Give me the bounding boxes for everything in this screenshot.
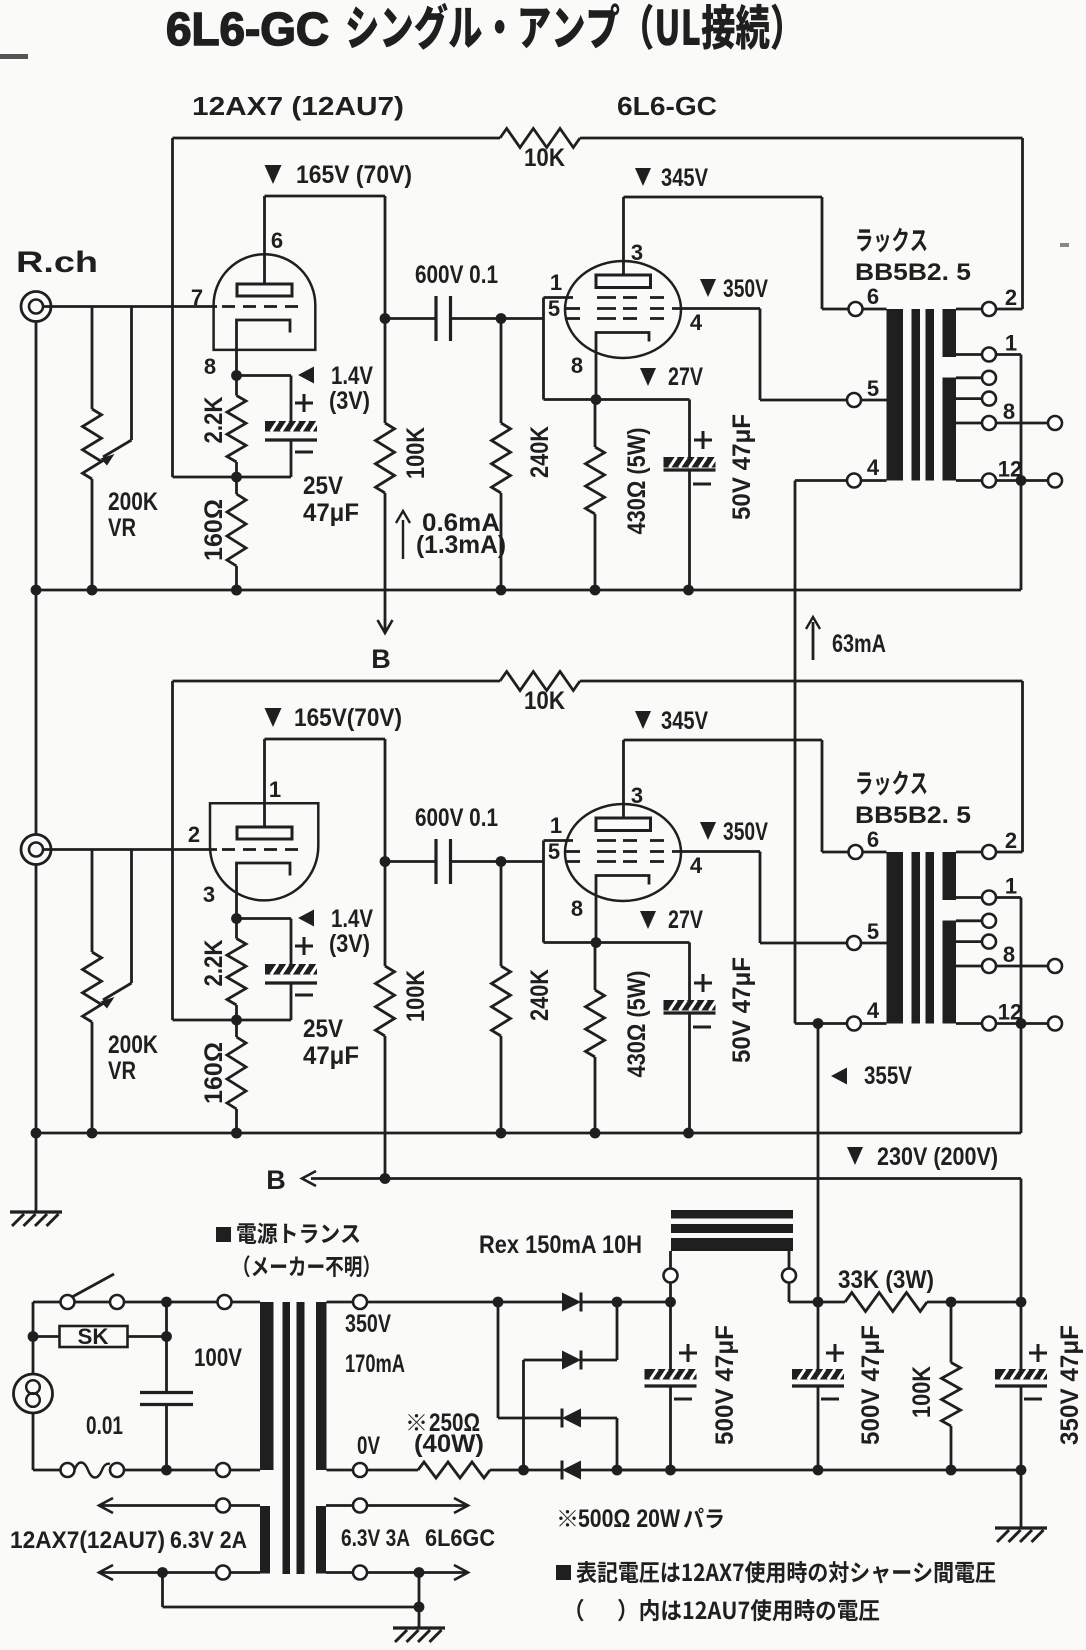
- capacitor 50V 47uF cathode: [688, 943, 691, 1001]
- transformer primary terminals: [232, 1301, 261, 1304]
- resistor 240K grid leak: [500, 862, 503, 967]
- resistor 100K plate load: [384, 319, 387, 424]
- svg-text:4: 4: [690, 310, 703, 335]
- svg-text:500V 47μF: 500V 47μF: [857, 1325, 885, 1445]
- wire input to grid: [43, 848, 217, 851]
- capacitor 0.01 line filter: [165, 1302, 168, 1391]
- svg-text:0.01: 0.01: [86, 1412, 123, 1440]
- ground symbol heater: [393, 1626, 445, 1629]
- label 230V (200V): [847, 1147, 863, 1165]
- wire 12AX7 plate to coupling node: [265, 195, 386, 198]
- svg-text:8: 8: [571, 896, 583, 921]
- tube 12AX7 grid: [222, 848, 235, 851]
- transformer heater 6.3V 2A: [230, 1504, 260, 1507]
- svg-text:3: 3: [631, 783, 643, 808]
- svg-text:0V: 0V: [357, 1432, 380, 1460]
- wire OPT sec 1-12 common: [996, 353, 1021, 356]
- svg-text:2: 2: [188, 822, 200, 847]
- capacitor 350V 47uF: [1020, 1302, 1023, 1369]
- pilot lamp: [32, 1302, 35, 1374]
- svg-text:6L6GC: 6L6GC: [425, 1525, 495, 1552]
- svg-text:350V: 350V: [723, 275, 768, 303]
- ground rail: [36, 589, 1021, 592]
- svg-text:8: 8: [1003, 399, 1015, 424]
- svg-text:(40W): (40W): [414, 1430, 484, 1458]
- tube 6L6 grids: [597, 839, 616, 842]
- svg-text:100K: 100K: [402, 427, 430, 479]
- svg-text:50V 47μF: 50V 47μF: [728, 414, 756, 520]
- wire NFB rail ch1: [173, 137, 501, 140]
- svg-text:B: B: [266, 1165, 286, 1195]
- footer note voltages: [556, 1565, 571, 1580]
- svg-text:47μF: 47μF: [303, 1042, 359, 1070]
- svg-text:1.4V: 1.4V: [331, 362, 373, 390]
- svg-text:200K: 200K: [108, 488, 158, 516]
- power transformer windings: [260, 1302, 274, 1470]
- resistor 100K bleeder: [950, 1302, 953, 1363]
- OPT secondary terminals: [956, 308, 982, 311]
- capacitor 500V 47uF no2: [817, 1302, 820, 1369]
- VR wiper: [130, 850, 133, 984]
- wire OPT sec 2 to NFB rail: [996, 308, 1023, 311]
- svg-text:355V: 355V: [864, 1062, 912, 1090]
- node 6L6 cathode: [591, 937, 602, 948]
- wire OPT sec 1-12 common: [996, 896, 1021, 899]
- output transformer windings: [887, 309, 904, 481]
- label B+ 63mA arrow: [812, 622, 815, 660]
- svg-text:345V: 345V: [661, 164, 708, 192]
- wire 100K to B+ arrow: [384, 493, 387, 632]
- tube 6L6-GC envelope: [565, 804, 681, 901]
- svg-text:6: 6: [271, 228, 283, 253]
- svg-text:10K: 10K: [524, 687, 565, 715]
- svg-text:5: 5: [867, 376, 879, 401]
- label 345V: [635, 711, 651, 729]
- resistor 10K NFB: [500, 672, 580, 691]
- svg-text:2.2K: 2.2K: [200, 940, 228, 987]
- svg-text:160Ω: 160Ω: [200, 1042, 228, 1104]
- svg-text:165V(70V): 165V(70V): [294, 704, 402, 732]
- label 0.6mA (1.3mA): [402, 520, 404, 559]
- label Lux BB5B2.5: [857, 228, 926, 253]
- resistor 240K grid leak: [500, 319, 503, 424]
- OPT primary terminals: [863, 308, 887, 311]
- svg-text:160Ω: 160Ω: [200, 499, 228, 561]
- tube 12AX7 envelope: [210, 803, 318, 900]
- svg-text:500Ω 20W: 500Ω 20W: [578, 1505, 680, 1533]
- svg-text:6.3V 3A: 6.3V 3A: [341, 1525, 410, 1552]
- svg-text:SK: SK: [78, 1324, 109, 1349]
- svg-text:12AX7(12AU7): 12AX7(12AU7): [10, 1527, 165, 1554]
- rectifier diode D2: [524, 1359, 563, 1362]
- label 27V: [640, 368, 656, 386]
- wire NFB rail ch2: [173, 680, 501, 683]
- svg-text:240K: 240K: [526, 426, 554, 478]
- svg-text:1: 1: [550, 813, 562, 838]
- transformer heater 6.3V 3A: [326, 1504, 353, 1507]
- OPT secondary terminals: [956, 851, 982, 854]
- svg-text:1: 1: [550, 270, 562, 295]
- svg-text:345V: 345V: [661, 707, 708, 735]
- resistor 100K plate load: [384, 862, 387, 967]
- svg-text:(3V): (3V): [329, 387, 370, 415]
- AC plug line top with switch: [33, 1301, 61, 1304]
- svg-text:R.ch: R.ch: [16, 246, 98, 279]
- svg-text:350V: 350V: [723, 818, 768, 846]
- surge killer SK: [33, 1335, 60, 1338]
- svg-text:63mA: 63mA: [832, 630, 886, 658]
- wire 100K to B line: [384, 1036, 387, 1179]
- svg-text:100K: 100K: [908, 1366, 936, 1418]
- wire 6L6 screen pin4: [672, 307, 760, 310]
- wire OPT primary 4 B+ feed: [795, 1022, 818, 1025]
- svg-text:BB5B2. 5: BB5B2. 5: [855, 259, 971, 286]
- tube 12AX7 cathode: [237, 320, 291, 376]
- node grid 6L6: [496, 313, 507, 324]
- svg-text:B: B: [371, 644, 391, 674]
- resistor 33K 3W: [818, 1301, 845, 1304]
- rectifier diode D4: [490, 1469, 562, 1472]
- resistor 2.2K cathode: [235, 376, 238, 396]
- svg-text:430Ω (5W): 430Ω (5W): [623, 428, 651, 535]
- label 165V (70V): [265, 708, 282, 727]
- scan artifact top-left: [0, 54, 28, 59]
- svg-text:100V: 100V: [194, 1344, 242, 1372]
- tube 6L6 cathode: [596, 333, 649, 400]
- potentiometer 200K VR: [83, 952, 102, 1022]
- wire jack to VR top: [91, 307, 94, 410]
- svg-text:5: 5: [548, 839, 560, 864]
- svg-text:(1.3mA): (1.3mA): [416, 531, 506, 559]
- tube 6L6 plate: [596, 275, 651, 288]
- label 500 ohm 20W parallel: [559, 1510, 576, 1527]
- wire 6L6 plate to OPT: [624, 739, 823, 742]
- resistor 430 ohm 5W: [594, 400, 597, 448]
- ground symbol PSU right: [1020, 1470, 1023, 1528]
- svg-text:1: 1: [1005, 874, 1017, 899]
- svg-text:5: 5: [867, 919, 879, 944]
- node AC top: [161, 1297, 172, 1308]
- svg-text:27V: 27V: [668, 363, 703, 391]
- svg-text:6.3V 2A: 6.3V 2A: [170, 1527, 247, 1554]
- wire NFB to cathode: [171, 138, 174, 477]
- svg-text:8: 8: [204, 354, 216, 379]
- wire OPT sec 12 to output: [996, 1022, 1048, 1025]
- tube 6L6 plate: [596, 818, 651, 831]
- wire PSU ground rail: [366, 1469, 369, 1472]
- ground rail: [36, 1132, 1021, 1135]
- svg-text:1: 1: [269, 777, 281, 802]
- wire 12AX7 plate to coupling node: [265, 738, 386, 741]
- OPT primary terminals: [863, 851, 887, 854]
- node pin8 12AX7: [231, 913, 242, 924]
- AC line bottom with fuse: [33, 1469, 61, 1472]
- svg-text:25V: 25V: [303, 1015, 343, 1043]
- svg-text:3: 3: [631, 240, 643, 265]
- svg-text:200K: 200K: [108, 1031, 158, 1059]
- tube 6L6-GC envelope: [565, 261, 681, 358]
- label 27V: [640, 911, 656, 929]
- transformer HV secondary terminals: [327, 1301, 354, 1304]
- capacitor 600V 0.1 coupling: [385, 317, 436, 320]
- input jack: [21, 292, 51, 322]
- svg-text:350V 47μF: 350V 47μF: [1056, 1325, 1084, 1445]
- svg-text:33K (3W): 33K (3W): [838, 1266, 934, 1294]
- svg-text:VR: VR: [108, 514, 136, 542]
- svg-text:2: 2: [1005, 285, 1017, 310]
- svg-text:7: 7: [191, 285, 203, 310]
- capacitor 25V 47uF bypass: [237, 374, 292, 377]
- svg-text:6: 6: [867, 827, 879, 852]
- resistor 250 ohm 40W: [367, 1469, 418, 1472]
- wire OPT sec 12 to output: [996, 479, 1048, 482]
- svg-text:165V (70V): 165V (70V): [296, 161, 412, 189]
- svg-text:BB5B2. 5: BB5B2. 5: [855, 802, 971, 829]
- svg-text:6L6-GC: 6L6-GC: [166, 3, 329, 55]
- resistor 10K NFB: [500, 129, 580, 148]
- label Lux BB5B2.5: [857, 771, 926, 796]
- wire 6L6 plate to OPT: [624, 196, 823, 199]
- capacitor 25V 47uF bypass: [237, 917, 292, 920]
- wire 6L6 screen pin4: [672, 850, 760, 853]
- tube 12AX7 cathode: [237, 863, 291, 919]
- label 1.4V (3V): [298, 367, 314, 384]
- svg-text:240K: 240K: [526, 969, 554, 1021]
- svg-text:8: 8: [1003, 942, 1015, 967]
- svg-text:6: 6: [867, 284, 879, 309]
- svg-text:5: 5: [548, 296, 560, 321]
- svg-text:4: 4: [690, 853, 703, 878]
- label 165V (70V): [265, 165, 282, 184]
- tube 6L6 grid tie pins 1,5: [542, 841, 545, 862]
- label 345V: [635, 168, 651, 186]
- svg-text:600V 0.1: 600V 0.1: [415, 804, 498, 832]
- svg-text:2: 2: [1005, 828, 1017, 853]
- wire heater center ground: [161, 1573, 164, 1608]
- resistor 430 ohm 5W: [594, 943, 597, 991]
- switch blade: [72, 1274, 114, 1297]
- wire input to grid: [43, 305, 217, 308]
- output transformer windings: [887, 852, 904, 1024]
- rectifier diode D3: [497, 1302, 500, 1418]
- svg-text:230V (200V): 230V (200V): [877, 1143, 998, 1171]
- label 350V: [700, 279, 716, 297]
- svg-text:430Ω (5W): 430Ω (5W): [623, 971, 651, 1078]
- svg-text:12AX7 (12AU7): 12AX7 (12AU7): [192, 91, 404, 121]
- node pin8 12AX7: [231, 370, 242, 381]
- wire OPT sec 8 to output: [997, 965, 1048, 968]
- svg-text:170mA: 170mA: [345, 1350, 405, 1378]
- tube 12AX7 plate: [237, 827, 292, 839]
- svg-text:4: 4: [867, 998, 880, 1023]
- svg-text:VR: VR: [108, 1057, 136, 1085]
- wire jack to VR top: [91, 850, 94, 953]
- label power transformer: [216, 1227, 231, 1242]
- tube 12AX7 grid: [222, 305, 235, 308]
- svg-text:8: 8: [571, 353, 583, 378]
- svg-text:1.4V: 1.4V: [331, 905, 373, 933]
- svg-text:25V: 25V: [303, 472, 343, 500]
- choke Rex 150mA 10H: [671, 1210, 793, 1219]
- svg-text:2.2K: 2.2K: [200, 397, 228, 444]
- wire OPT sec 2 to NFB rail: [996, 851, 1023, 854]
- svg-text:50V 47μF: 50V 47μF: [728, 957, 756, 1063]
- label 355V: [831, 1068, 847, 1085]
- ground symbol left: [10, 1210, 62, 1213]
- input jack: [21, 835, 51, 865]
- wire input ground bus left: [35, 322, 38, 835]
- resistor 2.2K cathode: [235, 919, 238, 939]
- label 1.4V (3V): [298, 910, 314, 927]
- tube 12AX7 plate: [237, 284, 292, 296]
- svg-text:1: 1: [1005, 331, 1017, 356]
- svg-text:4: 4: [867, 455, 880, 480]
- tube 12AX7 envelope: [214, 254, 316, 350]
- svg-text:3: 3: [203, 882, 215, 907]
- svg-text:350V: 350V: [345, 1310, 391, 1338]
- wire OPT sec 8 to output: [997, 422, 1048, 425]
- potentiometer 200K VR: [83, 409, 102, 479]
- svg-text:Rex 150mA 10H: Rex 150mA 10H: [479, 1231, 642, 1259]
- resistor 160 ohm: [227, 494, 246, 566]
- tube 6L6 grids: [597, 296, 616, 299]
- svg-text:500V 47μF: 500V 47μF: [711, 1325, 739, 1445]
- node grid 6L6: [496, 856, 507, 867]
- VR wiper: [130, 307, 133, 441]
- node 6L6 cathode: [591, 394, 602, 405]
- capacitor 600V 0.1 coupling: [385, 860, 436, 863]
- rectifier bridge diode D1: [367, 1301, 498, 1304]
- svg-text:(3V): (3V): [329, 930, 370, 958]
- svg-text:100K: 100K: [402, 970, 430, 1022]
- svg-text:600V 0.1: 600V 0.1: [415, 261, 498, 289]
- wire NFB to cathode: [171, 681, 174, 1020]
- wire OPT primary 4 B+ feed: [795, 479, 847, 482]
- resistor 160 ohm: [227, 1037, 246, 1109]
- tube 6L6 grid tie pins 1,5: [542, 298, 545, 319]
- capacitor 50V 47uF cathode: [688, 400, 691, 458]
- svg-text:10K: 10K: [524, 144, 565, 172]
- svg-text:27V: 27V: [668, 906, 703, 934]
- capacitor 500V 47uF no1: [669, 1302, 672, 1369]
- svg-text:6L6-GC: 6L6-GC: [617, 91, 717, 121]
- wire B+ line to channels: [311, 1177, 1021, 1180]
- label 350V: [700, 822, 716, 840]
- svg-text:47μF: 47μF: [303, 499, 359, 527]
- tube 6L6 cathode: [596, 876, 649, 943]
